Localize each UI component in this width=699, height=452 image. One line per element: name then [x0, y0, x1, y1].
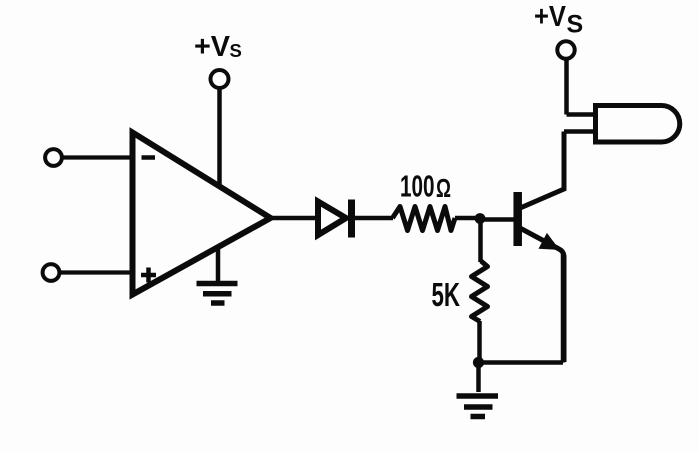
transistor Q1 base bar [513, 192, 522, 246]
supply terminal +VS (right) [557, 41, 574, 58]
svg-text:S: S [567, 10, 584, 38]
node IN+ terminal [43, 264, 60, 281]
label +VS (right supply) [534, 1, 583, 38]
svg-text:5K: 5K [432, 276, 461, 313]
node B (junction dot) [473, 357, 484, 368]
wire [476, 363, 481, 393]
svg-text:Ω: Ω [436, 175, 451, 203]
svg-text:+V: +V [194, 31, 231, 63]
svg-text:100: 100 [400, 169, 435, 204]
node IN- terminal [45, 149, 62, 166]
ground (op-amp) [197, 284, 238, 304]
wire [354, 216, 393, 221]
supply terminal +VS (left) [211, 70, 229, 88]
diode D1 [318, 200, 352, 238]
wire [63, 155, 134, 159]
node A (junction dot) [475, 213, 486, 224]
op-amp U1 [133, 133, 271, 295]
svg-text:+V: +V [534, 1, 567, 33]
wire [455, 216, 480, 221]
svg-text:S: S [230, 40, 242, 61]
wire [477, 321, 482, 363]
resistor R2 5K [472, 261, 488, 322]
wire [478, 219, 483, 263]
op-amp inverting input marker (-) [142, 155, 156, 160]
wire [561, 252, 566, 363]
wire [479, 360, 564, 365]
wire [567, 112, 597, 117]
label 5K [432, 276, 461, 313]
resistor R1 100Ω [393, 207, 456, 231]
wire [564, 129, 597, 134]
ground (bottom) [457, 396, 499, 417]
wire [217, 89, 222, 189]
wire [216, 246, 221, 284]
wire [480, 217, 515, 222]
wire [61, 270, 135, 274]
transistor Q1 emitter [519, 228, 564, 363]
wire [564, 58, 569, 115]
wire [268, 216, 319, 221]
op-amp non-inverting input marker (+) [141, 268, 156, 283]
label +VS (left supply) [194, 31, 242, 63]
label 100Ω [400, 169, 451, 204]
transistor Q1 collector [519, 132, 564, 209]
LED DS1 body [596, 106, 680, 143]
